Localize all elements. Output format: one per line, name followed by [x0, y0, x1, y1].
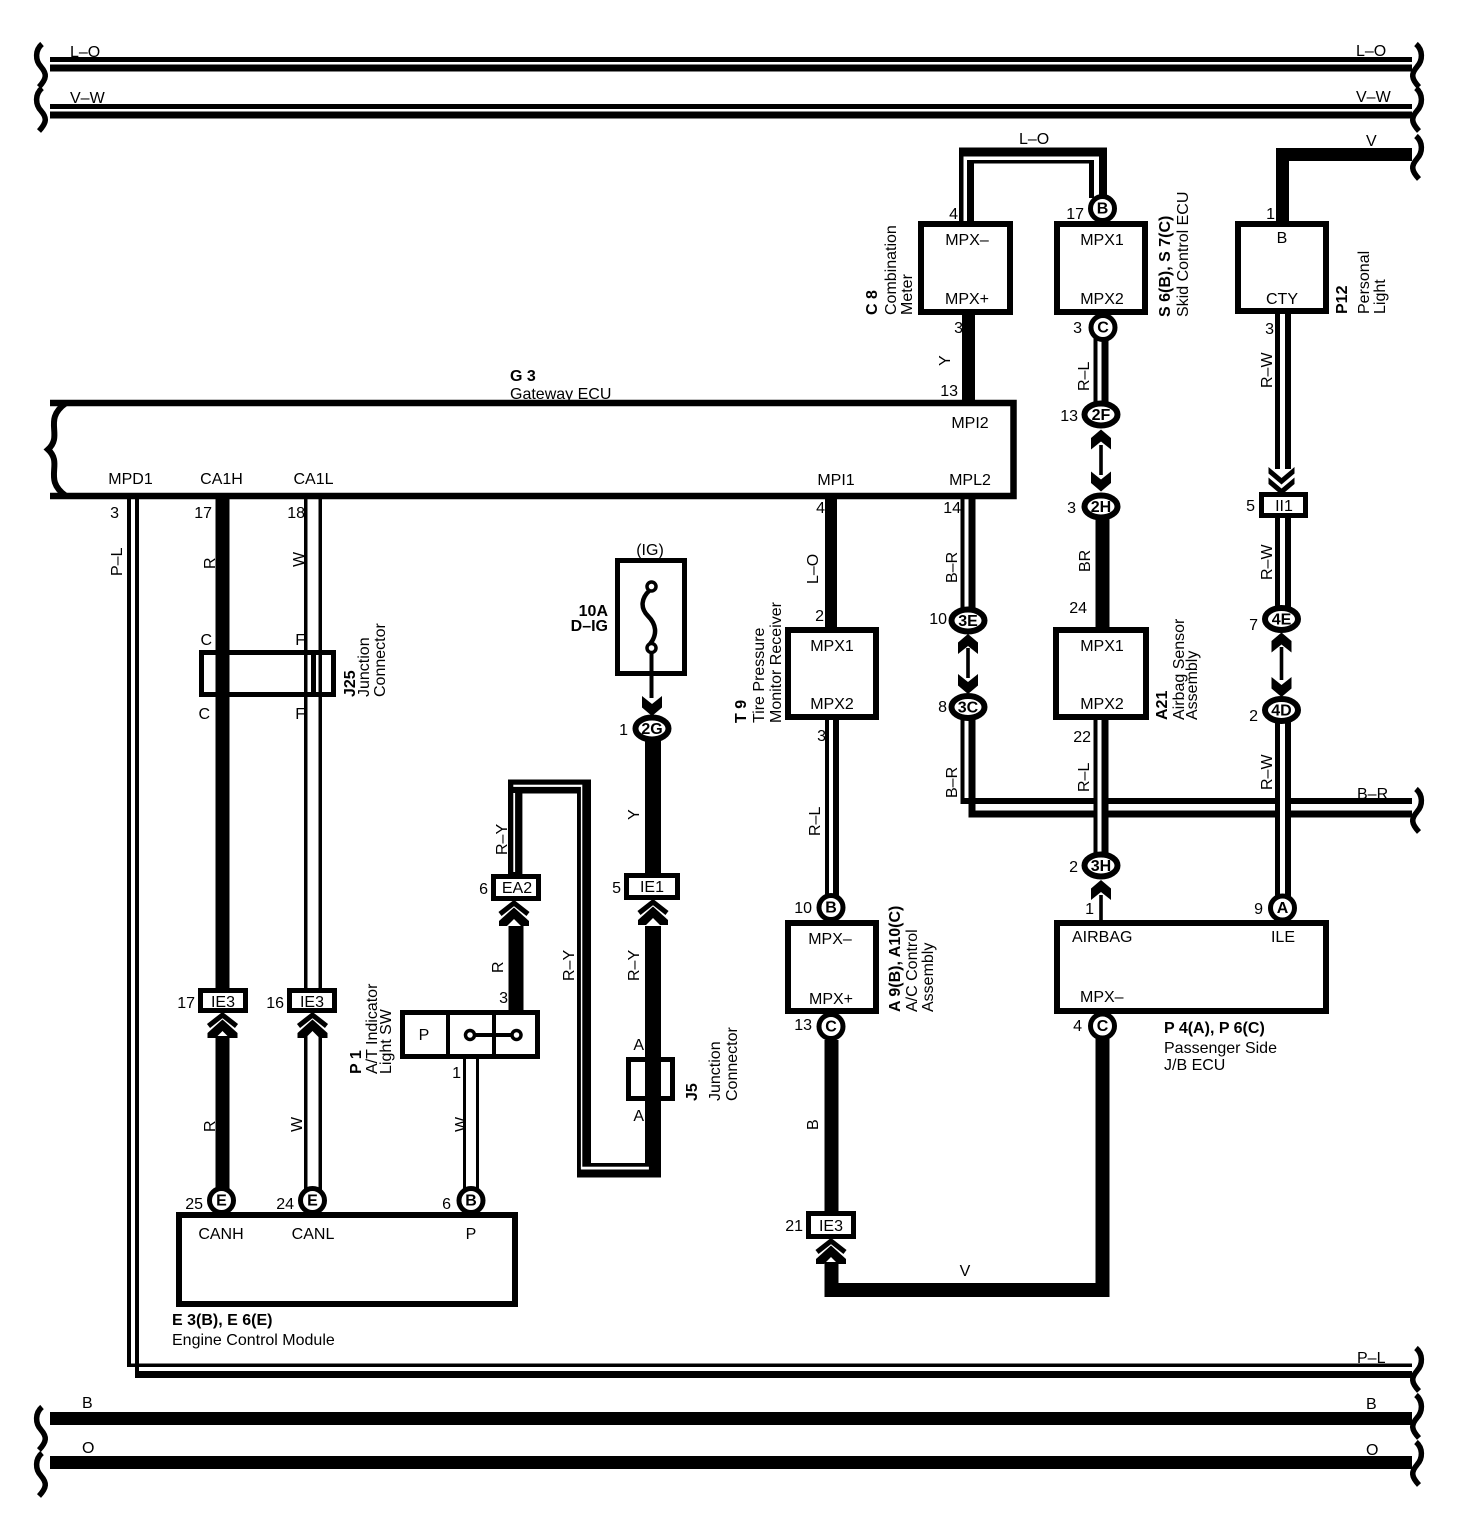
- svg-text:3: 3: [110, 505, 119, 522]
- svg-text:II1: II1: [1275, 498, 1293, 515]
- svg-text:F: F: [295, 706, 305, 723]
- svg-text:Personal: Personal: [1356, 251, 1373, 314]
- svg-text:Y: Y: [937, 355, 954, 366]
- svg-text:3: 3: [1067, 500, 1076, 517]
- svg-text:IE3: IE3: [819, 1218, 843, 1235]
- svg-text:5: 5: [612, 880, 621, 897]
- svg-text:F: F: [295, 632, 305, 649]
- svg-text:24: 24: [276, 1196, 294, 1213]
- svg-text:(IG): (IG): [636, 542, 664, 559]
- svg-text:3H: 3H: [1091, 858, 1111, 875]
- svg-text:MPX+: MPX+: [945, 291, 989, 308]
- svg-text:MPX1: MPX1: [1080, 232, 1124, 249]
- svg-text:CANL: CANL: [292, 1226, 335, 1243]
- svg-text:A: A: [1277, 900, 1289, 917]
- svg-text:V: V: [960, 1263, 971, 1280]
- svg-text:W: W: [291, 551, 308, 567]
- svg-text:Light SW: Light SW: [378, 1008, 395, 1074]
- svg-text:S 6(B), S 7(C): S 6(B), S 7(C): [1157, 216, 1174, 317]
- svg-text:CANH: CANH: [198, 1226, 243, 1243]
- svg-text:Connector: Connector: [372, 623, 389, 697]
- svg-text:4: 4: [1073, 1018, 1082, 1035]
- svg-text:L–O: L–O: [70, 44, 100, 61]
- svg-text:V–W: V–W: [70, 90, 106, 107]
- svg-text:EA2: EA2: [502, 880, 532, 897]
- svg-text:B: B: [805, 1119, 822, 1130]
- svg-text:Gateway ECU: Gateway ECU: [510, 386, 611, 403]
- svg-text:3: 3: [1265, 321, 1274, 338]
- svg-text:P 4(A), P 6(C): P 4(A), P 6(C): [1164, 1020, 1265, 1037]
- svg-text:7: 7: [1249, 617, 1258, 634]
- svg-text:B–R: B–R: [944, 552, 961, 583]
- svg-text:3C: 3C: [958, 700, 979, 717]
- svg-text:W: W: [453, 1116, 470, 1132]
- svg-text:Junction: Junction: [356, 637, 373, 697]
- svg-text:MPI2: MPI2: [951, 415, 988, 432]
- svg-text:R–Y: R–Y: [626, 950, 643, 981]
- svg-text:A/C Control: A/C Control: [904, 929, 921, 1012]
- svg-text:R–L: R–L: [1076, 362, 1093, 391]
- svg-text:R–W: R–W: [1259, 544, 1276, 580]
- svg-text:8: 8: [938, 699, 947, 716]
- svg-text:3: 3: [817, 728, 826, 745]
- svg-text:O: O: [82, 1440, 94, 1457]
- svg-text:25: 25: [185, 1196, 203, 1213]
- svg-text:C: C: [825, 1019, 837, 1036]
- svg-text:10: 10: [929, 611, 947, 628]
- svg-text:MPX–: MPX–: [1080, 989, 1124, 1006]
- svg-text:C: C: [200, 632, 212, 649]
- svg-text:Assembly: Assembly: [1184, 651, 1201, 720]
- svg-text:MPX2: MPX2: [1080, 291, 1124, 308]
- svg-text:P–L: P–L: [109, 547, 126, 576]
- svg-text:B: B: [1277, 230, 1288, 247]
- svg-text:4: 4: [949, 206, 958, 223]
- svg-text:E: E: [216, 1193, 227, 1210]
- svg-text:L–O: L–O: [805, 554, 822, 584]
- svg-text:21: 21: [785, 1218, 803, 1235]
- svg-text:13: 13: [940, 383, 958, 400]
- svg-text:R–Y: R–Y: [494, 824, 511, 855]
- svg-text:MPL2: MPL2: [949, 472, 991, 489]
- svg-text:4D: 4D: [1271, 703, 1291, 720]
- svg-text:B: B: [82, 1395, 93, 1412]
- svg-text:R–L: R–L: [1076, 763, 1093, 792]
- svg-text:C: C: [198, 706, 210, 723]
- svg-text:1: 1: [452, 1065, 461, 1082]
- svg-text:P: P: [466, 1226, 477, 1243]
- svg-text:CA1H: CA1H: [200, 471, 243, 488]
- svg-text:MPD1: MPD1: [108, 471, 153, 488]
- svg-text:Y: Y: [626, 809, 643, 820]
- svg-text:J/B ECU: J/B ECU: [1164, 1057, 1225, 1074]
- svg-text:P: P: [419, 1027, 430, 1044]
- svg-text:V: V: [1366, 133, 1377, 150]
- svg-text:W: W: [289, 1116, 306, 1132]
- svg-text:R: R: [202, 1120, 219, 1132]
- svg-text:IE1: IE1: [640, 879, 664, 896]
- svg-text:Light: Light: [1372, 279, 1389, 314]
- svg-text:P12: P12: [1334, 285, 1351, 314]
- svg-text:E: E: [307, 1193, 318, 1210]
- svg-text:A: A: [633, 1108, 644, 1125]
- svg-text:2: 2: [1249, 708, 1258, 725]
- svg-text:3: 3: [954, 320, 963, 337]
- svg-text:A: A: [633, 1037, 644, 1054]
- svg-text:2: 2: [1069, 859, 1078, 876]
- svg-text:1: 1: [1266, 206, 1275, 223]
- svg-text:B: B: [465, 1193, 477, 1210]
- svg-text:B: B: [825, 900, 837, 917]
- svg-text:P–L: P–L: [1357, 1350, 1386, 1367]
- svg-text:13: 13: [794, 1017, 812, 1034]
- svg-text:L–O: L–O: [1019, 131, 1049, 148]
- svg-text:BR: BR: [1077, 550, 1094, 572]
- svg-text:B: B: [1366, 1396, 1377, 1413]
- svg-text:1: 1: [1085, 901, 1094, 918]
- svg-text:MPX1: MPX1: [1080, 638, 1124, 655]
- svg-text:6: 6: [479, 881, 488, 898]
- svg-text:R: R: [202, 557, 219, 569]
- svg-text:IE3: IE3: [300, 994, 324, 1011]
- svg-text:A 9(B), A10(C): A 9(B), A10(C): [887, 906, 904, 1012]
- svg-text:P 1: P 1: [348, 1050, 365, 1074]
- svg-text:MPX2: MPX2: [1080, 696, 1124, 713]
- svg-text:CTY: CTY: [1266, 291, 1298, 308]
- svg-text:C 8: C 8: [864, 290, 881, 315]
- svg-text:MPX+: MPX+: [809, 991, 853, 1008]
- svg-text:17: 17: [1066, 206, 1084, 223]
- svg-text:Combination: Combination: [883, 225, 900, 315]
- svg-text:O: O: [1366, 1442, 1378, 1459]
- svg-text:17: 17: [177, 995, 195, 1012]
- svg-text:Engine Control Module: Engine Control Module: [172, 1332, 335, 1349]
- svg-text:3: 3: [1073, 320, 1082, 337]
- svg-text:R: R: [490, 961, 507, 973]
- svg-text:R–W: R–W: [1259, 754, 1276, 790]
- svg-text:24: 24: [1069, 600, 1087, 617]
- svg-text:1: 1: [619, 722, 628, 739]
- svg-text:2F: 2F: [1092, 407, 1111, 424]
- svg-text:Monitor Receiver: Monitor Receiver: [768, 601, 785, 723]
- svg-text:MPX–: MPX–: [945, 232, 989, 249]
- svg-text:3: 3: [499, 990, 508, 1007]
- svg-text:Connector: Connector: [724, 1027, 741, 1101]
- svg-text:10: 10: [794, 900, 812, 917]
- svg-text:22: 22: [1073, 729, 1091, 746]
- svg-text:MPX1: MPX1: [810, 638, 854, 655]
- svg-text:T 9: T 9: [733, 700, 750, 723]
- svg-text:Skid Control ECU: Skid Control ECU: [1175, 192, 1192, 317]
- svg-text:E 3(B), E 6(E): E 3(B), E 6(E): [172, 1312, 272, 1329]
- svg-text:9: 9: [1254, 901, 1263, 918]
- svg-text:B: B: [1097, 201, 1109, 218]
- svg-text:3E: 3E: [958, 613, 978, 630]
- svg-text:MPX2: MPX2: [810, 696, 854, 713]
- svg-text:4: 4: [816, 500, 825, 517]
- svg-text:Tire Pressure: Tire Pressure: [751, 627, 768, 723]
- svg-text:B–R: B–R: [944, 767, 961, 798]
- svg-text:C: C: [1097, 320, 1109, 337]
- svg-text:17: 17: [194, 505, 212, 522]
- svg-text:6: 6: [442, 1196, 451, 1213]
- svg-text:Passenger Side: Passenger Side: [1164, 1040, 1277, 1057]
- svg-text:CA1L: CA1L: [293, 471, 333, 488]
- svg-text:B–R: B–R: [1357, 786, 1388, 803]
- svg-text:G 3: G 3: [510, 368, 536, 385]
- svg-text:AIRBAG: AIRBAG: [1072, 929, 1132, 946]
- svg-text:L–O: L–O: [1356, 43, 1386, 60]
- svg-text:R–W: R–W: [1259, 352, 1276, 388]
- svg-text:J5: J5: [684, 1083, 701, 1101]
- svg-text:Meter: Meter: [899, 273, 916, 315]
- svg-text:5: 5: [1246, 498, 1255, 515]
- svg-text:C: C: [1097, 1018, 1109, 1035]
- svg-text:14: 14: [943, 500, 961, 517]
- svg-text:R–L: R–L: [807, 807, 824, 836]
- svg-text:ILE: ILE: [1271, 929, 1295, 946]
- svg-text:4E: 4E: [1272, 612, 1292, 629]
- svg-text:MPI1: MPI1: [817, 472, 854, 489]
- svg-text:2H: 2H: [1091, 499, 1111, 516]
- svg-text:Assembly: Assembly: [920, 943, 937, 1012]
- svg-text:MPX–: MPX–: [808, 931, 852, 948]
- svg-text:13: 13: [1060, 408, 1078, 425]
- svg-text:2: 2: [815, 608, 824, 625]
- svg-text:D–IG: D–IG: [571, 618, 608, 635]
- svg-text:R–Y: R–Y: [561, 950, 578, 981]
- svg-text:16: 16: [266, 995, 284, 1012]
- svg-text:IE3: IE3: [211, 994, 235, 1011]
- svg-text:2G: 2G: [641, 721, 662, 738]
- svg-text:Junction: Junction: [707, 1041, 724, 1101]
- svg-text:18: 18: [287, 505, 305, 522]
- svg-text:V–W: V–W: [1356, 89, 1392, 106]
- svg-text:A21: A21: [1154, 691, 1171, 720]
